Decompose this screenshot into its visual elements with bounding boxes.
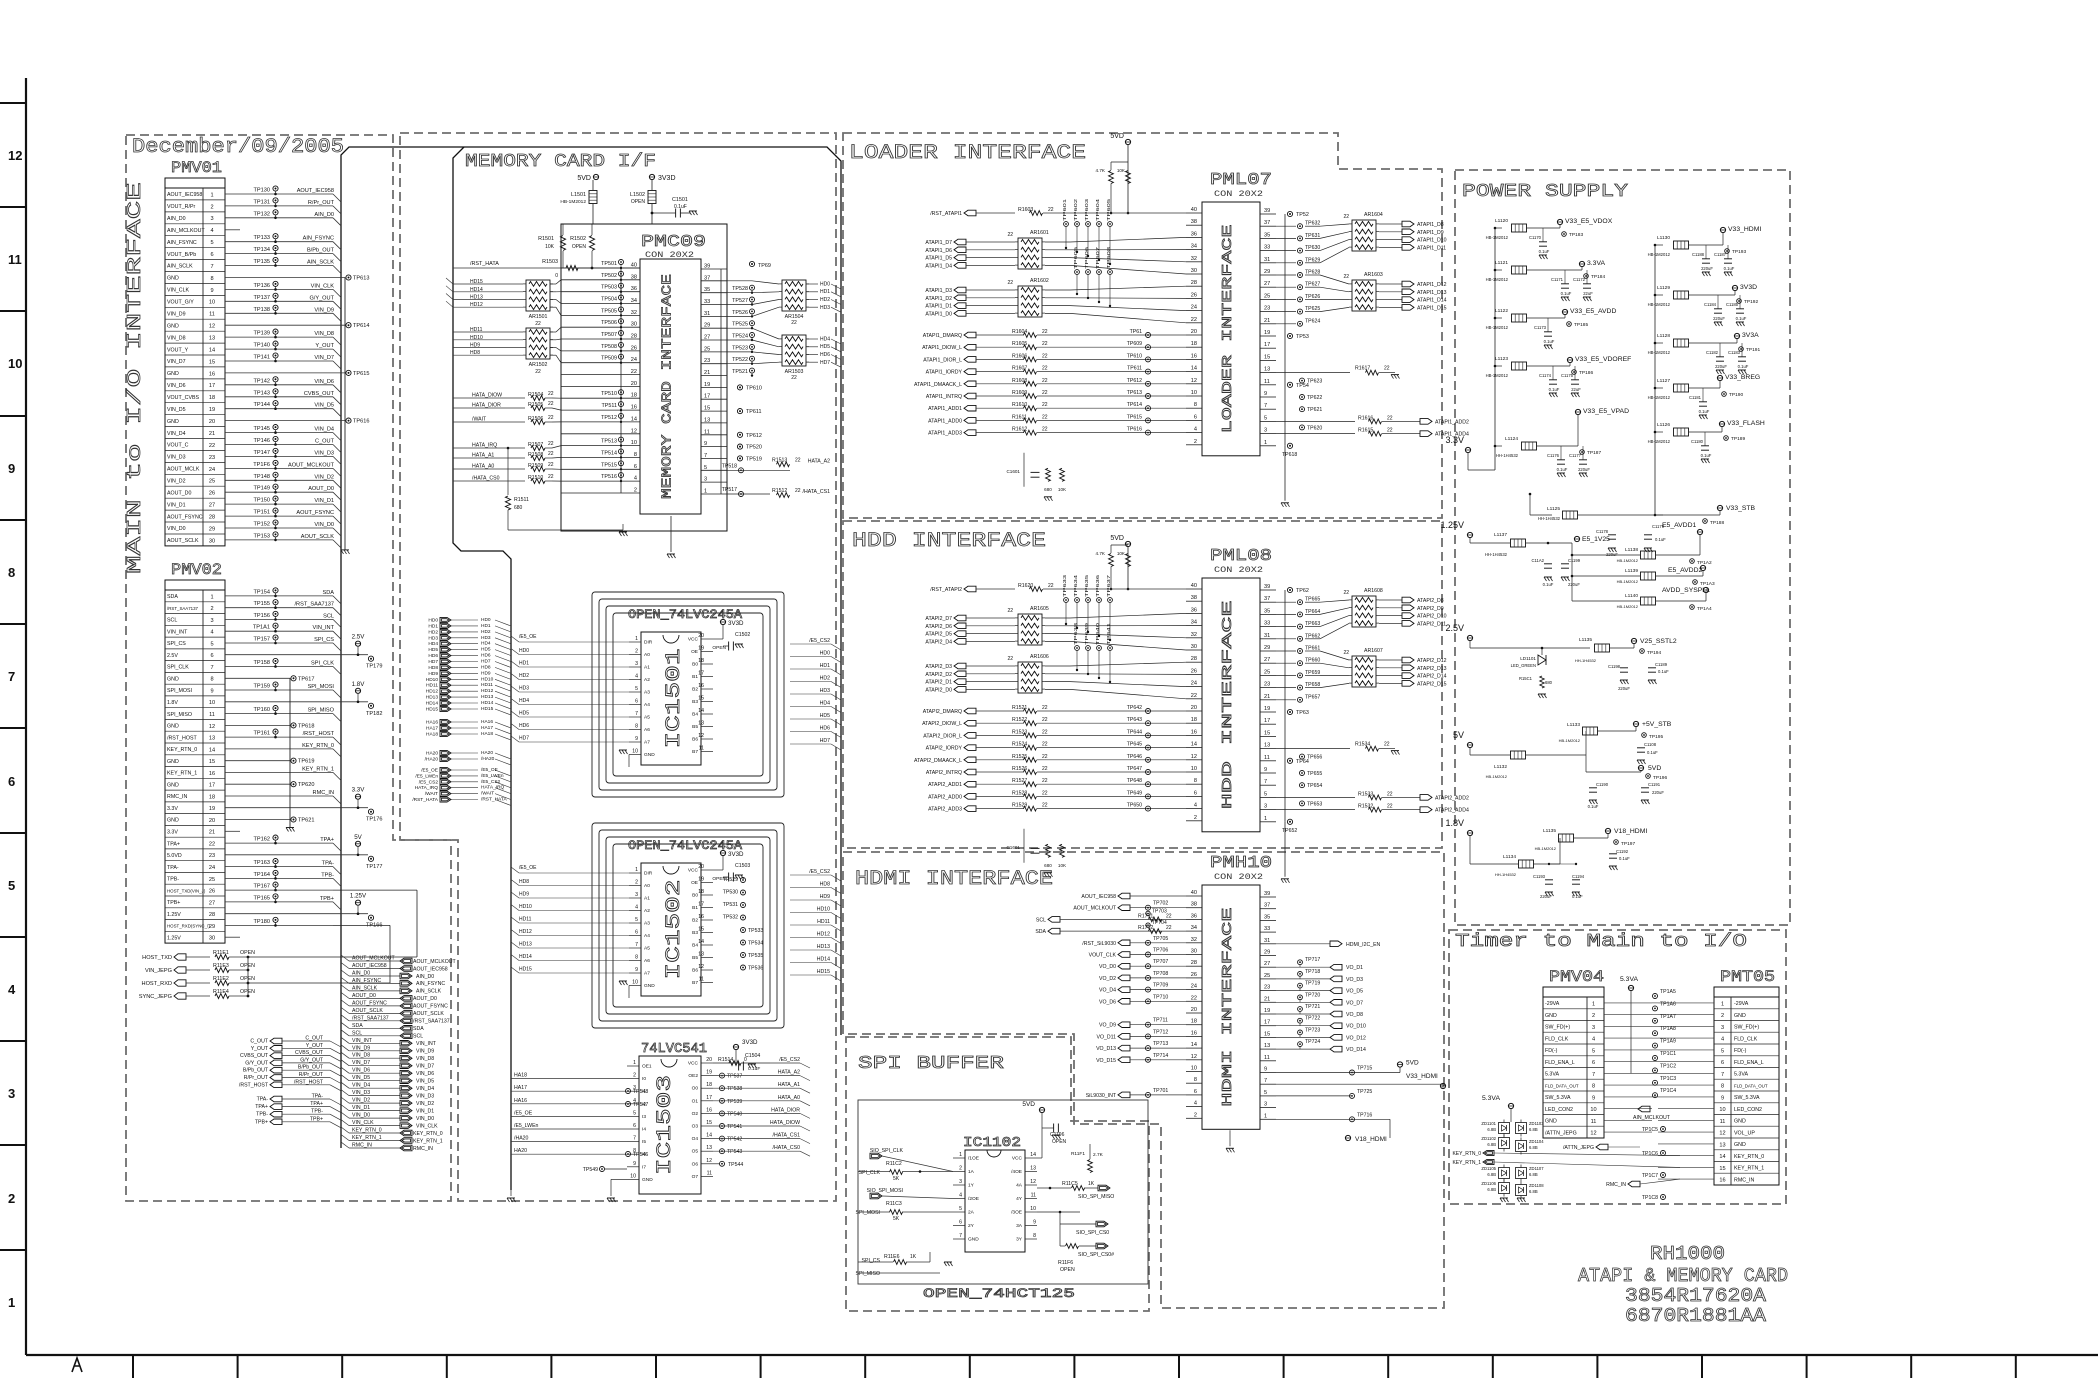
svg-text:HB-1M2012: HB-1M2012 xyxy=(1486,373,1509,378)
svg-text:TP193: TP193 xyxy=(1732,249,1746,255)
svg-text:37: 37 xyxy=(1264,596,1270,602)
svg-text:22: 22 xyxy=(1042,766,1048,772)
svg-text:TP132: TP132 xyxy=(254,211,270,217)
svg-text:ZD1106: ZD1106 xyxy=(1481,1181,1496,1186)
svg-text:LED_GREEN: LED_GREEN xyxy=(1511,663,1536,668)
svg-text:SPI_MOSI: SPI_MOSI xyxy=(855,1210,880,1216)
svg-text:SW_5.3VA: SW_5.3VA xyxy=(1545,1095,1571,1101)
svg-text:5: 5 xyxy=(210,240,213,246)
svg-text:HD11: HD11 xyxy=(470,327,483,333)
svg-text:TP538: TP538 xyxy=(727,1086,742,1092)
svg-text:HDD INTERFACE: HDD INTERFACE xyxy=(852,530,1046,553)
svg-text:22: 22 xyxy=(535,369,541,375)
svg-text:A2: A2 xyxy=(644,677,650,683)
svg-text:6: 6 xyxy=(8,774,15,789)
svg-text:VIN_D3: VIN_D3 xyxy=(314,450,334,456)
svg-text:SW_FD(+): SW_FD(+) xyxy=(1734,1025,1759,1031)
svg-text:ATAPI2_D11: ATAPI2_D11 xyxy=(1417,621,1446,627)
svg-text:AOUT_D0: AOUT_D0 xyxy=(352,993,376,999)
svg-text:Timer to Main to I/O: Timer to Main to I/O xyxy=(1455,932,1747,952)
svg-text:VOL_UP: VOL_UP xyxy=(1734,1130,1755,1136)
svg-text:24: 24 xyxy=(631,357,637,363)
resistor R1611 22 xyxy=(976,419,1024,421)
svg-text:C_OUT: C_OUT xyxy=(305,1036,323,1042)
svg-text:22: 22 xyxy=(1387,791,1393,797)
svg-text:37: 37 xyxy=(1264,903,1270,909)
svg-text:TP661: TP661 xyxy=(1305,646,1320,652)
svg-text:POWER SUPPLY: POWER SUPPLY xyxy=(1462,182,1628,202)
svg-text:CVBS_OUT: CVBS_OUT xyxy=(304,391,335,397)
svg-text:4: 4 xyxy=(1194,1101,1197,1107)
svg-text:HD6: HD6 xyxy=(428,653,438,659)
svg-text:22: 22 xyxy=(548,391,554,397)
svg-text:7: 7 xyxy=(635,711,638,717)
resistor array AR1503 xyxy=(782,335,806,366)
svg-text:5VD: 5VD xyxy=(1110,535,1124,542)
svg-text:22: 22 xyxy=(1166,913,1172,919)
svg-text:TP1A6: TP1A6 xyxy=(1660,1001,1676,1007)
AIN_MCLKOUT terminal xyxy=(1638,1106,1650,1112)
svg-text:22: 22 xyxy=(1343,650,1349,656)
svg-text:TP719: TP719 xyxy=(1305,981,1320,987)
svg-text:ATAPI2_D4: ATAPI2_D4 xyxy=(925,639,952,645)
svg-text:3: 3 xyxy=(8,1086,15,1101)
svg-text:ATAPI1_ADD2: ATAPI1_ADD2 xyxy=(1435,419,1469,425)
section box: timer to main to I/O xyxy=(1449,930,1786,1204)
svg-text:TP1A1: TP1A1 xyxy=(253,625,270,631)
svg-text:38: 38 xyxy=(1191,595,1197,601)
svg-text:22: 22 xyxy=(209,443,215,449)
resistor R1527 22 xyxy=(976,783,1024,785)
svg-text:C_OUT: C_OUT xyxy=(250,1039,268,1045)
svg-text:17: 17 xyxy=(209,383,215,389)
svg-text:VOUT_C: VOUT_C xyxy=(167,443,189,449)
svg-text:VIN_D8: VIN_D8 xyxy=(352,1053,370,1059)
svg-text:HOST_RXD: HOST_RXD xyxy=(142,981,172,987)
svg-text:1: 1 xyxy=(633,1060,636,1066)
svg-text:6: 6 xyxy=(635,699,638,705)
svg-text:TP1C3: TP1C3 xyxy=(1660,1076,1676,1082)
svg-text:ATAPI1_D3: ATAPI1_D3 xyxy=(925,288,952,294)
svg-text:OPEN: OPEN xyxy=(631,199,646,205)
svg-text:TP159: TP159 xyxy=(254,684,270,690)
svg-text:1.8V: 1.8V xyxy=(352,681,366,688)
svg-text:0: 0 xyxy=(555,273,558,279)
svg-text:1K: 1K xyxy=(1088,1181,1095,1187)
svg-text:TP143: TP143 xyxy=(254,390,270,396)
svg-text:2: 2 xyxy=(1721,1013,1724,1019)
svg-text:HD7: HD7 xyxy=(428,659,438,665)
svg-text:HD5: HD5 xyxy=(820,713,830,719)
svg-text:9: 9 xyxy=(635,967,638,973)
svg-text:HATA_A1: HATA_A1 xyxy=(472,453,494,459)
svg-text:/2OE: /2OE xyxy=(968,1196,979,1202)
svg-text:HB-1M2012: HB-1M2012 xyxy=(1617,604,1639,609)
svg-text:15: 15 xyxy=(698,927,704,933)
svg-text:C1183: C1183 xyxy=(1728,350,1741,355)
svg-text:LED_CON2: LED_CON2 xyxy=(1734,1107,1762,1113)
svg-text:LOADER INTERFACE: LOADER INTERFACE xyxy=(1220,225,1236,434)
svg-text:VIN_INT: VIN_INT xyxy=(167,629,188,635)
svg-text:TP140: TP140 xyxy=(254,343,270,349)
svg-text:C1190: C1190 xyxy=(1596,782,1609,787)
resistor array AR1504 xyxy=(782,280,806,311)
svg-text:HATA_A0: HATA_A0 xyxy=(778,1095,800,1101)
svg-text:25: 25 xyxy=(1264,669,1270,675)
svg-text:11: 11 xyxy=(1264,1055,1270,1061)
svg-text:ATAPI2_D15: ATAPI2_D15 xyxy=(1417,681,1447,687)
svg-text:R11F1: R11F1 xyxy=(1071,1151,1085,1157)
svg-text:5VD: 5VD xyxy=(1648,765,1661,772)
svg-text:24: 24 xyxy=(209,865,215,871)
svg-text:HD0: HD0 xyxy=(519,648,529,654)
svg-text:1Y: 1Y xyxy=(968,1183,975,1189)
resistor array AR1501 xyxy=(526,280,550,311)
svg-text:TP655: TP655 xyxy=(1307,771,1322,777)
svg-text:E5_AVDD1: E5_AVDD1 xyxy=(1662,522,1696,529)
svg-text:17: 17 xyxy=(1264,718,1270,724)
svg-text:TP142: TP142 xyxy=(254,378,270,384)
svg-text:HATA_DIOR: HATA_DIOR xyxy=(472,403,501,409)
svg-text:Y_OUT: Y_OUT xyxy=(306,1043,324,1049)
svg-text:ATAPI1_ADD1: ATAPI1_ADD1 xyxy=(928,406,962,412)
svg-text:R1513: R1513 xyxy=(772,457,787,463)
svg-text:TPA+: TPA+ xyxy=(255,1104,268,1110)
svg-text:TP52: TP52 xyxy=(1296,212,1309,218)
svg-text:5: 5 xyxy=(1592,1048,1595,1054)
svg-text:TP157: TP157 xyxy=(254,637,270,643)
svg-text:AVDD_SYSPLL: AVDD_SYSPLL xyxy=(1662,587,1710,594)
svg-text:ATAPI2_ADD0: ATAPI2_ADD0 xyxy=(928,794,962,800)
svg-text:HD13: HD13 xyxy=(470,295,483,301)
svg-text:17: 17 xyxy=(698,902,704,908)
svg-text:HD11: HD11 xyxy=(817,919,830,925)
svg-text:1.8V: 1.8V xyxy=(1445,818,1464,828)
svg-text:C1504: C1504 xyxy=(745,1053,760,1059)
svg-text:TP725: TP725 xyxy=(1357,1089,1372,1095)
svg-text:12: 12 xyxy=(698,733,704,739)
svg-text:22: 22 xyxy=(548,474,554,480)
svg-text:VIN_D8: VIN_D8 xyxy=(167,335,186,341)
resistor R1504 22 on HATA_DIOW xyxy=(453,397,525,399)
svg-text:8: 8 xyxy=(635,724,638,730)
svg-text:10K: 10K xyxy=(1058,863,1067,868)
section box: December/09/2005 main to I/O interface xyxy=(126,135,451,1201)
svg-text:L1133: L1133 xyxy=(1567,722,1580,728)
IC IC1501 OPEN_74LVC245A xyxy=(592,592,784,797)
svg-text:TP614: TP614 xyxy=(1127,402,1142,408)
svg-text:15: 15 xyxy=(1264,354,1270,360)
svg-text:VIN_D8: VIN_D8 xyxy=(314,331,334,337)
IC1501 input wires from bus xyxy=(511,636,519,642)
svg-text:25: 25 xyxy=(209,479,215,485)
svg-text:680: 680 xyxy=(1545,680,1553,685)
svg-text:TP510: TP510 xyxy=(601,391,617,397)
svg-text:ATAPI & MEMORY CARD: ATAPI & MEMORY CARD xyxy=(1578,1265,1788,1287)
svg-text:18: 18 xyxy=(698,658,704,664)
svg-text:22: 22 xyxy=(1042,366,1048,372)
svg-text:TP535: TP535 xyxy=(748,953,763,959)
svg-text:V18_HDMI: V18_HDMI xyxy=(1614,828,1647,835)
svg-text:HD7: HD7 xyxy=(820,360,830,366)
svg-text:22: 22 xyxy=(1166,925,1172,931)
svg-text:TP711: TP711 xyxy=(1153,1018,1168,1024)
svg-text:TP506: TP506 xyxy=(601,320,617,326)
svg-text:C1185: C1185 xyxy=(1726,302,1739,307)
svg-text:29: 29 xyxy=(1264,269,1270,275)
svg-text:AOUT_FSYNC: AOUT_FSYNC xyxy=(413,1004,448,1010)
resistor R1609 22 xyxy=(976,395,1024,397)
svg-text:4: 4 xyxy=(635,905,638,911)
svg-text:VIN_D6: VIN_D6 xyxy=(352,1068,370,1074)
svg-text:6.8B: 6.8B xyxy=(1529,1172,1538,1177)
svg-text:/RST_HATA: /RST_HATA xyxy=(412,797,438,803)
svg-text:27: 27 xyxy=(1264,657,1270,663)
svg-text:22: 22 xyxy=(1191,317,1197,323)
svg-text:28: 28 xyxy=(1191,656,1197,662)
svg-text:18: 18 xyxy=(631,393,637,399)
svg-text:10K: 10K xyxy=(1117,551,1126,556)
svg-text:HH-1H4532: HH-1H4532 xyxy=(1485,552,1508,557)
svg-text:C1176: C1176 xyxy=(1547,453,1560,458)
svg-text:GND: GND xyxy=(167,371,179,377)
svg-text:E5_1V25: E5_1V25 xyxy=(1582,536,1610,543)
svg-text:TP532: TP532 xyxy=(723,915,738,921)
svg-text:ATAPI1_INTRQ: ATAPI1_INTRQ xyxy=(926,394,962,400)
svg-text:HD8: HD8 xyxy=(481,664,491,670)
svg-text:I0: I0 xyxy=(642,1076,646,1082)
svg-text:16: 16 xyxy=(209,771,215,777)
svg-text:0.1uF: 0.1uF xyxy=(1701,453,1712,458)
svg-text:TP653: TP653 xyxy=(1307,801,1322,807)
svg-text:TP53: TP53 xyxy=(1296,334,1309,340)
svg-text:TP648: TP648 xyxy=(1127,778,1142,784)
svg-text:AIN_SCLK: AIN_SCLK xyxy=(416,989,442,995)
svg-text:15: 15 xyxy=(1719,1166,1725,1172)
svg-text:IC1102: IC1102 xyxy=(963,1135,1021,1151)
svg-text:AOUT_D0: AOUT_D0 xyxy=(413,996,437,1002)
svg-text:GND: GND xyxy=(167,419,179,425)
svg-text:/E5_CS2: /E5_CS2 xyxy=(809,638,830,644)
svg-text:HD10: HD10 xyxy=(519,904,532,910)
connector PML07 CON 20X2 LOADER INTERFACE xyxy=(1202,202,1260,456)
svg-text:TP186: TP186 xyxy=(1579,370,1593,376)
svg-text:16: 16 xyxy=(1191,1030,1197,1036)
svg-text:Y_OUT: Y_OUT xyxy=(251,1046,269,1052)
svg-text:TP507: TP507 xyxy=(601,332,617,338)
svg-text:TP541: TP541 xyxy=(727,1124,742,1130)
svg-text:6: 6 xyxy=(1592,1060,1595,1066)
svg-text:SIO_SPI_CS0#: SIO_SPI_CS0# xyxy=(1078,1252,1114,1258)
svg-text:4: 4 xyxy=(8,982,16,997)
svg-text:TP136: TP136 xyxy=(254,283,270,289)
svg-text:HD0: HD0 xyxy=(820,282,830,288)
svg-text:FLD_CLK: FLD_CLK xyxy=(1734,1036,1758,1042)
svg-text:TP503: TP503 xyxy=(601,285,617,291)
svg-text:16: 16 xyxy=(1719,1178,1725,1184)
svg-text:C1173: C1173 xyxy=(1534,325,1547,330)
svg-text:VCC: VCC xyxy=(1012,1156,1023,1162)
svg-text:HD12: HD12 xyxy=(481,688,494,694)
resistor R1610 22 xyxy=(976,407,1024,409)
svg-text:B/Pb_OUT: B/Pb_OUT xyxy=(307,248,335,254)
svg-text:TP534: TP534 xyxy=(748,941,763,947)
svg-text:OE2: OE2 xyxy=(688,1073,698,1079)
svg-text:TP504: TP504 xyxy=(601,297,617,303)
svg-text:TP511: TP511 xyxy=(602,403,617,409)
svg-text:680: 680 xyxy=(514,505,523,511)
svg-text:TP1F6: TP1F6 xyxy=(253,462,270,468)
svg-text:TP613: TP613 xyxy=(1127,390,1142,396)
svg-text:A4: A4 xyxy=(644,933,650,939)
svg-text:TP622: TP622 xyxy=(1307,395,1322,401)
svg-text:4: 4 xyxy=(1592,1037,1595,1043)
svg-text:TP150: TP150 xyxy=(254,498,270,504)
svg-text:RMC_IN: RMC_IN xyxy=(313,790,334,796)
resistor R1505 22 on HATA_DIOR xyxy=(453,407,525,409)
svg-text:HD14: HD14 xyxy=(426,701,439,707)
svg-text:ATAPI2_ADD3: ATAPI2_ADD3 xyxy=(928,807,962,813)
svg-text:ATAPI1_D0: ATAPI1_D0 xyxy=(925,311,952,317)
svg-text:VIN_JEPG: VIN_JEPG xyxy=(145,968,172,974)
svg-text:74LVC541: 74LVC541 xyxy=(641,1041,707,1057)
svg-text:AIN_FSYNC: AIN_FSYNC xyxy=(416,981,445,987)
resistor R1524 22 xyxy=(976,747,1024,749)
svg-text:V18_HDMI: V18_HDMI xyxy=(1355,1136,1387,1143)
svg-text:TP618: TP618 xyxy=(1282,452,1297,458)
svg-text:ATAPI2_D14: ATAPI2_D14 xyxy=(1417,674,1447,680)
resistor array AR1502 xyxy=(526,328,550,359)
svg-text:AOUT_IEC958: AOUT_IEC958 xyxy=(352,963,387,969)
svg-text:0.1uF: 0.1uF xyxy=(1572,894,1583,899)
svg-text:VO_D12: VO_D12 xyxy=(1346,1035,1366,1041)
svg-text:TP1A9: TP1A9 xyxy=(1660,1039,1676,1045)
svg-text:HA18: HA18 xyxy=(481,731,493,737)
svg-text:HD15: HD15 xyxy=(519,967,532,973)
svg-text:22: 22 xyxy=(1042,414,1048,420)
svg-text:TP528: TP528 xyxy=(732,286,748,292)
svg-text:39: 39 xyxy=(704,264,710,270)
svg-text:HD1: HD1 xyxy=(428,623,438,629)
svg-text:2: 2 xyxy=(210,204,213,210)
svg-text:VO_D14: VO_D14 xyxy=(1346,1047,1366,1053)
zener ZD1105 xyxy=(1499,1168,1510,1179)
svg-text:/RST_ATAPI1: /RST_ATAPI1 xyxy=(930,211,962,217)
svg-text:HD14: HD14 xyxy=(481,700,494,706)
zener ZD1102 xyxy=(1499,1138,1510,1149)
svg-text:HD2: HD2 xyxy=(820,297,830,303)
svg-text:AOUT_MCLK: AOUT_MCLK xyxy=(167,467,200,473)
svg-text:TP643: TP643 xyxy=(1127,717,1142,723)
svg-text:AIN_D0: AIN_D0 xyxy=(352,971,370,977)
svg-text:ATAPI1_D6: ATAPI1_D6 xyxy=(925,248,952,254)
svg-text:24: 24 xyxy=(1191,681,1197,687)
svg-text:22: 22 xyxy=(1048,207,1054,213)
svg-text:GND: GND xyxy=(968,1237,979,1243)
svg-text:ATAPI2_D10: ATAPI2_D10 xyxy=(1417,614,1447,620)
svg-text:VIN_D6: VIN_D6 xyxy=(416,1071,434,1077)
svg-text:AOUT_SCLK: AOUT_SCLK xyxy=(167,538,199,544)
svg-text:TP715: TP715 xyxy=(1357,1066,1372,1072)
resistor array AR1608 xyxy=(1352,596,1376,627)
svg-text:OPEN: OPEN xyxy=(240,989,255,995)
svg-text:TP182: TP182 xyxy=(366,711,382,717)
svg-text:HA17: HA17 xyxy=(481,725,493,731)
svg-text:13: 13 xyxy=(1264,1043,1270,1049)
svg-text:4: 4 xyxy=(959,1193,962,1199)
svg-text:18: 18 xyxy=(1191,341,1197,347)
svg-text:2.5V: 2.5V xyxy=(1445,623,1464,633)
svg-text:14: 14 xyxy=(1191,366,1197,372)
svg-text:/RST_HOST: /RST_HOST xyxy=(167,735,197,741)
svg-text:B3: B3 xyxy=(692,930,698,936)
svg-text:TP195: TP195 xyxy=(1649,734,1663,740)
svg-text:L1501: L1501 xyxy=(571,192,586,198)
svg-text:13: 13 xyxy=(209,736,215,742)
svg-text:TP629: TP629 xyxy=(1305,257,1320,263)
svg-text:TP605: TP605 xyxy=(1073,246,1079,269)
svg-text:TP512: TP512 xyxy=(601,415,617,421)
svg-text:TP1A8: TP1A8 xyxy=(1660,1026,1676,1032)
svg-text:SPI_CS: SPI_CS xyxy=(314,637,334,643)
svg-text:VIN_CLK: VIN_CLK xyxy=(311,283,335,289)
svg-text:HB-1M2012: HB-1M2012 xyxy=(1486,235,1509,240)
svg-text:13: 13 xyxy=(698,952,704,958)
svg-text:10: 10 xyxy=(630,1173,636,1179)
svg-text:14: 14 xyxy=(698,708,704,714)
svg-text:3: 3 xyxy=(210,216,213,222)
svg-text:B2: B2 xyxy=(692,687,698,693)
svg-text:HD6: HD6 xyxy=(481,653,491,659)
svg-text:AOUT_MCLKOUT: AOUT_MCLKOUT xyxy=(352,956,395,962)
svg-text:6: 6 xyxy=(634,464,637,470)
svg-text:/E5_CS2: /E5_CS2 xyxy=(779,1057,800,1063)
svg-text:KEY_RTN_0: KEY_RTN_0 xyxy=(413,1131,443,1137)
svg-text:29: 29 xyxy=(1264,645,1270,651)
svg-text:O7: O7 xyxy=(692,1174,699,1180)
svg-text:HD1: HD1 xyxy=(820,289,830,295)
svg-text:17: 17 xyxy=(706,1095,712,1101)
svg-text:9: 9 xyxy=(635,736,638,742)
svg-text:C1180: C1180 xyxy=(1691,439,1704,444)
svg-text:HD15: HD15 xyxy=(470,279,483,285)
svg-text:TP525: TP525 xyxy=(732,322,748,328)
svg-text:TP633: TP633 xyxy=(1062,574,1068,597)
PMV01 pin fan wires with test points xyxy=(225,193,333,195)
svg-text:6.8B: 6.8B xyxy=(1487,1127,1496,1132)
svg-text:PMV01: PMV01 xyxy=(171,159,222,177)
resistor R1506 22 on /WAIT xyxy=(453,421,525,423)
svg-text:V33_HDMI: V33_HDMI xyxy=(1406,1073,1438,1080)
svg-text:ATAPI2_ADD2: ATAPI2_ADD2 xyxy=(1435,795,1469,801)
svg-text:HD14: HD14 xyxy=(470,287,483,293)
svg-text:HD13: HD13 xyxy=(481,694,494,700)
svg-text:/HA20: /HA20 xyxy=(514,1136,529,1142)
svg-text:AIN_SCLK: AIN_SCLK xyxy=(167,264,193,270)
svg-text:2.7K: 2.7K xyxy=(1093,1152,1104,1158)
svg-text:1: 1 xyxy=(8,1295,15,1310)
svg-text:-29VA: -29VA xyxy=(1734,1001,1749,1007)
svg-text:TP640: TP640 xyxy=(1095,622,1101,645)
svg-text:TP131: TP131 xyxy=(254,199,270,205)
svg-text:ATAPI2_DMAACK_L: ATAPI2_DMAACK_L xyxy=(914,758,962,764)
svg-text:4: 4 xyxy=(634,476,637,482)
svg-text:3854R17620A: 3854R17620A xyxy=(1625,1285,1767,1307)
svg-text:ATAPI2_D5: ATAPI2_D5 xyxy=(925,632,952,638)
svg-text:TPB+: TPB+ xyxy=(320,896,334,902)
svg-text:12: 12 xyxy=(631,428,637,434)
svg-text:TP612: TP612 xyxy=(746,433,762,439)
